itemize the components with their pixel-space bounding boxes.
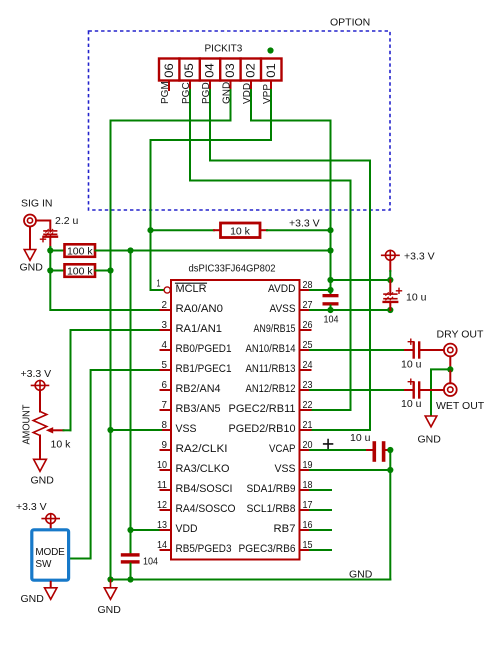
capacitor C2 104 plates (121, 553, 140, 563)
connector WET OUT jack (444, 383, 457, 396)
wire mode sw to ground (50, 582, 52, 588)
junction AVSS/10u (387, 307, 393, 313)
svg-text:RA2/CLKI: RA2/CLKI (176, 443, 228, 455)
power +3.3V symbol (right) (382, 250, 399, 260)
pin 26 AN9/RB15 (300, 329, 311, 331)
svg-text:5: 5 (162, 359, 168, 371)
wire PICKIT GND net (111, 90, 231, 580)
wire C2 to GND rail (130, 564, 132, 580)
svg-text:VDD: VDD (176, 523, 198, 535)
junction +3.3V rail / VDD branch (127, 247, 133, 253)
pin 8 VSS (161, 429, 172, 431)
wire pin 8 to GND vertical (111, 429, 162, 431)
pin 22 PGEC2/RB11 (300, 409, 311, 411)
wire GND bottom rail (111, 579, 391, 581)
svg-text:SIG IN: SIG IN (21, 198, 53, 210)
svg-text:22: 22 (303, 399, 313, 411)
svg-text:1: 1 (157, 278, 161, 290)
junction divider/R2 (47, 247, 53, 253)
connector SIG IN jack (24, 215, 36, 227)
pin 20 VCAP (300, 449, 311, 451)
svg-text:13: 13 (157, 519, 167, 531)
svg-text:RB5/PGED3: RB5/PGED3 (176, 543, 232, 555)
pin 5 RB1/PGEC1 (161, 369, 172, 371)
junction +3.3V wire left (327, 277, 333, 283)
connector pin stubs (169, 81, 271, 91)
connector J1 PICKIT3 body (159, 59, 282, 81)
svg-text:21: 21 (303, 419, 313, 431)
resistor R2 100k body (65, 244, 96, 256)
svg-text:AN9/RB15: AN9/RB15 (254, 323, 296, 335)
capacitor C5 plus sign (408, 339, 413, 344)
svg-text:SDA1/RB9: SDA1/RB9 (247, 483, 296, 495)
junction at 10k/+3.3V vertical (327, 227, 333, 233)
switch S1 MODE SW box (32, 530, 69, 580)
svg-text:AN11/RB13: AN11/RB13 (246, 363, 296, 375)
svg-text:GND: GND (418, 434, 442, 446)
svg-text:AN10/RB14: AN10/RB14 (246, 343, 296, 355)
ground symbol outputs (425, 416, 437, 427)
svg-text:PGED2/RB10: PGED2/RB10 (229, 423, 296, 435)
svg-text:100 k: 100 k (67, 266, 93, 278)
svg-text:+3.3 V: +3.3 V (16, 501, 47, 513)
pin 9 RA2/CLKI (161, 449, 172, 451)
wire wiper stub (64, 429, 71, 431)
wire pin13 junction to C 104 (130, 530, 132, 553)
svg-text:SW: SW (35, 559, 52, 570)
pin 7 RB3/AN5 (161, 409, 172, 411)
svg-text:+3.3 V: +3.3 V (404, 250, 435, 262)
svg-text:9: 9 (162, 439, 168, 451)
wire C1 to divider node (49, 238, 51, 247)
wire junction to WET jack (449, 369, 451, 383)
svg-text:VCAP: VCAP (269, 443, 296, 455)
svg-text:DRY OUT: DRY OUT (437, 329, 484, 341)
wire 10k to +3.3V net (267, 229, 331, 231)
svg-text:10: 10 (157, 459, 167, 471)
wire pin23 to C6 (310, 389, 405, 391)
svg-text:104: 104 (143, 556, 158, 568)
capacitor C5 10u series (405, 343, 444, 358)
svg-text:10 k: 10 k (230, 225, 251, 237)
pin 24 AN11/RB13 (300, 369, 311, 371)
svg-text:RB7: RB7 (274, 523, 296, 535)
pin 17 SCL1/RB8 (300, 509, 311, 511)
capacitor C3 104 plates (323, 294, 339, 306)
capacitor C6 plus sign (408, 379, 413, 384)
svg-text:GND: GND (349, 569, 373, 581)
svg-text:04: 04 (203, 63, 217, 78)
wire pin18 open stub (310, 489, 331, 491)
svg-text:MODE: MODE (35, 547, 65, 558)
svg-text:10 u: 10 u (401, 398, 422, 410)
wire pin15 open stub (310, 549, 331, 551)
wire pin25 to C5 (310, 349, 405, 351)
wire C3 to AVSS wire (330, 306, 332, 311)
pin 16 RB7 (300, 529, 311, 531)
svg-text:2.2 u: 2.2 u (55, 215, 79, 227)
wire RB1 to mode vertical (71, 370, 162, 559)
svg-text:PICKIT3: PICKIT3 (205, 44, 243, 55)
capacitor C1 2.2u polarized plates (44, 229, 57, 236)
wire pin28 AVDD to +3.3V vertical (310, 289, 331, 291)
wire VPP / MCLR net (151, 90, 272, 290)
pin 18 SDA1/RB9 (300, 489, 311, 491)
junction GND rail left (107, 576, 113, 582)
capacitor C7 10u plates (367, 443, 390, 460)
power +3.3V symbol (pot) (32, 381, 49, 391)
capacitor C1 plus sign (41, 237, 46, 242)
svg-text:05: 05 (182, 63, 196, 78)
pin 4 RB0/PGED1 (161, 349, 172, 351)
svg-text:VSS: VSS (176, 423, 197, 435)
ground symbol under pot (34, 459, 47, 471)
svg-text:GND: GND (98, 604, 122, 616)
wire R2 to +3.3V rail (96, 250, 331, 252)
junction at MCLR/10k (147, 227, 153, 233)
svg-text:+3.3 V: +3.3 V (289, 218, 320, 230)
junction VSS/right vertical (387, 467, 393, 473)
resistor R1 10k body (221, 223, 261, 238)
pin 23 AN12/RB12 (300, 389, 311, 391)
svg-text:AVDD: AVDD (268, 283, 296, 295)
ground symbol under SIG IN (24, 227, 36, 260)
svg-text:104: 104 (324, 314, 339, 326)
pin 28 AVDD (300, 289, 311, 291)
svg-text:03: 03 (223, 63, 237, 78)
svg-text:+3.3 V: +3.3 V (21, 368, 52, 380)
pin 25 AN10/RB14 (300, 349, 311, 351)
svg-text:24: 24 (303, 359, 313, 371)
pin 1 MCLR stub and bubble (164, 287, 170, 293)
junction R3/GND (107, 267, 113, 273)
wire pin16 open stub (310, 529, 331, 531)
pin 14 RB5/PGED3 (161, 549, 172, 551)
wire R3 to GND vertical (96, 270, 111, 272)
junction DRY/WET ground (447, 366, 453, 372)
svg-text:01: 01 (264, 63, 278, 78)
capacitor C6 10u series (405, 383, 444, 398)
pin 12 RA4/SOSCO (161, 509, 172, 511)
wire SIG IN to C 2.2u (37, 221, 51, 230)
power +3.3V symbol (mode sw) (42, 514, 59, 524)
resistor R3 100k body (65, 264, 96, 277)
wire VDD branch vertical to pin13 (131, 251, 162, 531)
svg-text:AMOUNT: AMOUNT (22, 405, 33, 445)
svg-text:26: 26 (303, 319, 313, 331)
wire pin20 VCAP to C7 (310, 449, 367, 451)
junction divider/R3 (47, 267, 53, 273)
svg-text:RA1/AN1: RA1/AN1 (176, 323, 223, 335)
pin 13 VDD (161, 529, 172, 531)
wire wiper to RA1 (71, 330, 162, 430)
svg-text:8: 8 (162, 419, 168, 431)
svg-text:GND: GND (31, 475, 55, 487)
svg-text:6: 6 (162, 379, 168, 391)
svg-text:WET OUT: WET OUT (436, 400, 485, 412)
svg-text:RA0/AN0: RA0/AN0 (176, 303, 224, 315)
svg-text:dsPIC33FJ64GP802: dsPIC33FJ64GP802 (189, 263, 276, 275)
wire divider node down to RA0 (50, 247, 161, 310)
wire node to R2 (50, 250, 64, 252)
capacitor C4 10u polarized (384, 280, 398, 310)
svg-text:2: 2 (162, 299, 168, 311)
svg-text:12: 12 (157, 499, 167, 511)
junction +3.3V rail end (327, 247, 333, 253)
potentiometer R4 wiper arrow (51, 429, 64, 431)
resistor R1 10k left stub (214, 229, 220, 231)
svg-text:RA4/SOSCO: RA4/SOSCO (176, 503, 236, 515)
junction pin8/GND (107, 427, 113, 433)
junction AVSS/C3 (327, 307, 333, 313)
svg-text:06: 06 (162, 63, 176, 78)
svg-text:10 k: 10 k (51, 439, 72, 451)
svg-text:RB2/AN4: RB2/AN4 (176, 383, 221, 395)
svg-text:4: 4 (162, 339, 168, 351)
svg-text:SCL1/RB8: SCL1/RB8 (247, 503, 296, 515)
pin 27 AVSS (300, 309, 311, 311)
svg-text:RA3/CLKO: RA3/CLKO (176, 463, 230, 475)
svg-text:7: 7 (162, 399, 168, 411)
wire PGD net (210, 90, 370, 430)
OPTION dashed box (89, 31, 391, 210)
wire +3.3V to mode sw (50, 524, 52, 529)
svg-text:100 k: 100 k (67, 246, 93, 258)
pin 11 RB4/SOSCI (161, 489, 172, 491)
svg-text:3: 3 (162, 319, 168, 331)
svg-text:RB0/PGED1: RB0/PGED1 (176, 343, 232, 355)
svg-text:VSS: VSS (275, 463, 296, 475)
svg-text:RB4/SOSCI: RB4/SOSCI (176, 483, 233, 495)
svg-text:14: 14 (157, 539, 167, 551)
node marker dot near pin 01 (267, 47, 273, 53)
svg-text:RB3/AN5: RB3/AN5 (176, 403, 221, 415)
ground symbol bottom left (104, 580, 116, 600)
wire pin27 AVSS to 10u cap (310, 309, 390, 311)
wire pin19 VSS to right vertical (310, 469, 390, 471)
svg-text:PGEC2/RB11: PGEC2/RB11 (229, 403, 296, 415)
svg-text:AN12/RB12: AN12/RB12 (246, 383, 296, 395)
svg-text:10 u: 10 u (406, 292, 427, 304)
connector DRY OUT jack (444, 344, 457, 357)
svg-text:GND: GND (20, 261, 44, 273)
svg-text:PGEC3/RB6: PGEC3/RB6 (239, 543, 296, 555)
potentiometer R4 body (33, 390, 47, 459)
wire PICKIT VDD to +3.3V vertical (251, 90, 331, 294)
wire node to R3 (50, 270, 64, 272)
pin 19 VSS (300, 469, 311, 471)
svg-text:10 u: 10 u (401, 358, 422, 370)
wire PGC net (190, 90, 351, 410)
wire MCLR to R 10k (151, 229, 215, 231)
resistor R1 10k right stub (262, 229, 268, 231)
capacitor C7 10u plus sign (324, 440, 333, 449)
pin 15 PGEC3/RB6 (300, 549, 311, 551)
pin 10 RA3/CLKO (161, 469, 172, 471)
pin 6 RB2/AN4 (161, 389, 172, 391)
junction +3.3V wire right (387, 277, 393, 283)
junction VCAP/right vertical (387, 447, 393, 453)
junction VDD/pin13 (127, 527, 133, 533)
pin 21 PGED2/RB10 (300, 429, 311, 431)
ground symbol under mode sw (45, 588, 57, 600)
pin 2 RA0/AN0 (161, 309, 172, 311)
junction C2/GND rail (127, 576, 133, 582)
pin 3 RA1/AN1 (161, 329, 172, 331)
IC U1 dsPIC33FJ64GP802 body (171, 280, 300, 560)
svg-text:OPTION: OPTION (330, 17, 370, 29)
svg-text:RB1/PGEC1: RB1/PGEC1 (176, 363, 232, 375)
svg-text:02: 02 (243, 63, 257, 78)
wire +3.3V symbol down (389, 260, 391, 271)
wire DRY jack to junction (449, 356, 451, 369)
wire +3.3V to AVDD vertical (331, 279, 391, 281)
svg-text:GND: GND (21, 593, 45, 605)
wire pin17 open stub (310, 509, 331, 511)
svg-text:11: 11 (157, 479, 167, 491)
svg-text:PGM: PGM (160, 81, 171, 104)
svg-text:10 u: 10 u (350, 432, 371, 444)
svg-text:MCLR: MCLR (176, 283, 207, 295)
wire right vertical to GND rail (389, 450, 391, 580)
wire junction to output ground (431, 369, 450, 415)
svg-text:AVSS: AVSS (270, 303, 296, 315)
capacitor C4 plus sign (397, 288, 402, 293)
junction AVDD (327, 287, 333, 293)
